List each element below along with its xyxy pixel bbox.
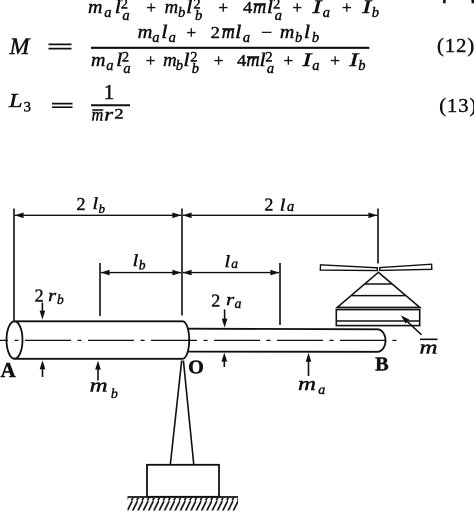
svg-text:2: 2: [211, 23, 220, 42]
svg-text:l: l: [161, 23, 167, 43]
svg-text:2: 2: [264, 195, 273, 215]
svg-text:b: b: [192, 61, 199, 77]
svg-text:m: m: [88, 0, 103, 18]
svg-text:+: +: [187, 23, 197, 42]
svg-text:2: 2: [211, 291, 220, 311]
svg-text:+: +: [292, 0, 302, 17]
svg-text:l: l: [280, 196, 286, 215]
svg-text:b: b: [57, 292, 64, 307]
svg-text:B: B: [375, 354, 389, 376]
svg-text:m: m: [253, 0, 266, 18]
label 2rb: [35, 285, 64, 307]
thin shaft a: rounded right cap: [378, 329, 386, 352]
equation (13) fraction bar: [91, 104, 130, 106]
dimension line 2lb with outward arrowheads: [15, 214, 181, 216]
dimension line 2la with outward arrowheads: [183, 214, 377, 216]
svg-text:+: +: [342, 0, 352, 17]
svg-text:m: m: [280, 23, 295, 43]
svg-text:a: a: [323, 5, 330, 21]
equation (12) fraction bar: [91, 47, 369, 49]
svg-text:m: m: [163, 51, 177, 71]
svg-text:a: a: [123, 61, 130, 77]
2ra down arrow: [224, 310, 226, 323]
2rb up arrow: [42, 366, 44, 377]
2rb down arrow: [41, 303, 43, 314]
svg-text:+: +: [146, 0, 156, 17]
svg-text:b: b: [372, 5, 379, 21]
rotor cone: [337, 272, 420, 307]
rotor base drum: [336, 310, 419, 326]
dimension extension line for la (x=280): [279, 263, 281, 325]
cropped equation number (11) paren stubs at top edge: [443, 0, 446, 3]
svg-text:l: l: [304, 23, 310, 43]
equation number (12): [437, 35, 474, 57]
arrow pointing to rotor mass: [405, 319, 422, 335]
svg-text:(12): (12): [437, 35, 474, 57]
dimension line lb with outward arrowheads: [101, 272, 181, 274]
svg-text:b: b: [111, 387, 118, 402]
svg-text:b: b: [139, 258, 146, 273]
svg-text:L: L: [8, 90, 23, 112]
label ma with arrow to shaft a: [298, 374, 325, 398]
pivot triangle right leg: [183, 361, 193, 465]
svg-text:O: O: [188, 357, 204, 379]
label 2ra: [211, 290, 241, 311]
equation (12) numerator: [138, 23, 320, 46]
svg-text:b: b: [176, 58, 183, 74]
equation (13) numerator 1: [104, 80, 115, 104]
rotor cone stripe 2: [352, 295, 406, 297]
label O at pivot: [188, 357, 204, 379]
svg-text:b: b: [99, 201, 106, 216]
svg-text:2: 2: [114, 107, 123, 123]
svg-text:m: m: [246, 51, 259, 71]
svg-text:a: a: [169, 30, 176, 46]
svg-text:a: a: [235, 296, 242, 311]
svg-text:l: l: [186, 0, 192, 18]
svg-text:l: l: [235, 23, 241, 43]
label 2lb: [77, 194, 106, 216]
label B at right shaft end: [375, 354, 389, 376]
equation (13) denominator m-bar r squared: [92, 104, 124, 124]
svg-text:a: a: [275, 8, 282, 24]
dimension extension line at pivot center (x=182): [181, 209, 183, 316]
svg-text:m: m: [91, 51, 106, 71]
dimension extension line at rotor (x=378): [377, 209, 379, 264]
svg-text:a: a: [106, 58, 113, 74]
ground hatching: [128, 498, 239, 511]
svg-text:l: l: [133, 251, 139, 270]
dimension line la with outward arrowheads: [183, 272, 279, 274]
svg-text:4: 4: [237, 51, 247, 70]
svg-text:r: r: [104, 104, 113, 124]
thick shaft b: left end ellipse: [7, 321, 23, 358]
svg-text:a: a: [122, 8, 129, 24]
svg-text:m: m: [222, 23, 235, 43]
svg-text:3: 3: [24, 100, 32, 116]
svg-text:b: b: [312, 30, 319, 46]
svg-text:m: m: [138, 23, 153, 43]
svg-text:m: m: [92, 104, 104, 124]
pivot base block: [147, 465, 219, 497]
thick shaft b: rounded right cap: [183, 321, 189, 359]
svg-text:b: b: [295, 30, 302, 46]
label A at left shaft end: [1, 358, 17, 382]
svg-text:4: 4: [243, 0, 253, 17]
equation (13) left side L3: [8, 90, 31, 116]
svg-text:m: m: [165, 0, 179, 18]
svg-text:b: b: [358, 58, 365, 74]
svg-text:r: r: [48, 286, 56, 305]
svg-text:a: a: [318, 383, 325, 398]
svg-text:2: 2: [77, 194, 86, 214]
rotor blade left: [320, 265, 377, 271]
svg-text:a: a: [287, 199, 294, 215]
svg-text:a: a: [267, 61, 274, 77]
dimension extension line for lb (x=100): [99, 263, 101, 316]
thin shaft a: top outline: [189, 328, 379, 331]
svg-text:r: r: [226, 290, 234, 309]
label la: [225, 252, 239, 271]
dimension extension line at left end (x=14): [13, 209, 15, 321]
svg-text:2: 2: [35, 285, 44, 305]
rotor blade right: [380, 264, 432, 270]
svg-text:b: b: [178, 5, 185, 21]
rotor base drum stripe: [336, 320, 419, 322]
svg-text:a: a: [312, 58, 319, 74]
svg-text:I: I: [311, 0, 323, 18]
svg-text:I: I: [301, 51, 313, 71]
svg-text:+: +: [218, 0, 228, 17]
svg-text:a: a: [152, 30, 159, 46]
label lb: [133, 251, 146, 272]
equation (12) left side M: [8, 34, 31, 59]
svg-text:b: b: [195, 8, 202, 24]
svg-text:−: −: [261, 23, 272, 42]
svg-text:+: +: [214, 51, 224, 70]
thick shaft b: bottom outline: [14, 358, 183, 360]
svg-text:1: 1: [104, 80, 115, 104]
equation (12) equals sign: [49, 44, 72, 48]
equation number (13): [439, 95, 474, 117]
label mb with arrow to shaft b: [90, 376, 118, 403]
svg-text:+: +: [330, 51, 340, 70]
svg-text:I: I: [361, 0, 373, 18]
svg-text:l: l: [225, 252, 231, 271]
center axis dash-dot line: [0, 339, 397, 341]
equation (11) denominator, partially cropped at top: [88, 0, 379, 24]
svg-text:A: A: [1, 358, 17, 382]
svg-text:a: a: [231, 256, 238, 271]
rotor cone stripe 1: [365, 283, 392, 285]
svg-text:m: m: [420, 338, 438, 359]
2ra up arrow: [223, 358, 225, 367]
svg-text:l: l: [183, 51, 189, 71]
svg-text:(13): (13): [439, 95, 474, 117]
thin shaft a: bottom outline: [187, 351, 378, 353]
label m-bar for rotor mass: [420, 338, 438, 359]
svg-text:+: +: [284, 51, 294, 70]
equation (13) equals sign: [52, 104, 73, 108]
svg-text:M: M: [8, 34, 31, 59]
pivot triangle left leg: [170, 361, 181, 465]
ground line: [128, 496, 239, 498]
label 2la: [264, 195, 294, 216]
svg-text:+: +: [146, 51, 156, 70]
thick shaft b: top outline: [14, 320, 183, 322]
svg-text:a: a: [104, 5, 111, 21]
equation (12) denominator: [91, 49, 366, 77]
svg-text:m: m: [298, 374, 316, 395]
svg-text:a: a: [243, 30, 250, 46]
